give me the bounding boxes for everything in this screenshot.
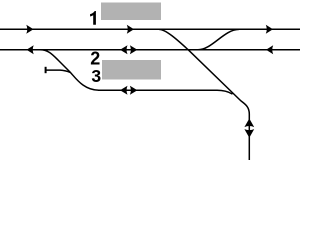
arrow right on track 1 (right)	[266, 25, 273, 34]
arrow left on track 2 (left)	[27, 45, 34, 54]
label track number 1 (drawn digit, no foot serif)	[90, 11, 96, 25]
wire S-curve from track 2 down to track 3	[40, 50, 99, 91]
arrow pair left head on track 3	[120, 86, 128, 95]
arrow up on vertical exit track	[244, 119, 254, 128]
wire diagonal branch from track 1 to bottom vertical exit	[159, 29, 249, 160]
arrow pair right head on track 2	[130, 45, 138, 54]
wire track 2 (second horizontal line)	[0, 49, 300, 51]
wire track 3 (third horizontal line with right-end merge curve)	[98, 90, 233, 94]
arrow left on track 2 (right)	[266, 45, 273, 54]
platform 2/3 (gray rectangle, middle)	[102, 60, 161, 80]
buffer stop tick	[45, 67, 47, 73]
wire stub siding to buffer stop	[46, 70, 71, 72]
arrow pair left head on track 2	[120, 45, 128, 54]
arrow right on track 1 (middle)	[127, 25, 134, 34]
svg-text:3: 3	[91, 66, 101, 86]
arrow down on vertical exit track	[244, 129, 254, 138]
wire track 1 (top horizontal line)	[0, 28, 300, 30]
arrow pair right head on track 3	[130, 86, 138, 95]
wire crossover curve from track 2 up to track 1	[198, 29, 239, 49]
arrow right on track 1 (left)	[26, 25, 33, 34]
platform 1 (gray rectangle, top)	[101, 3, 161, 21]
